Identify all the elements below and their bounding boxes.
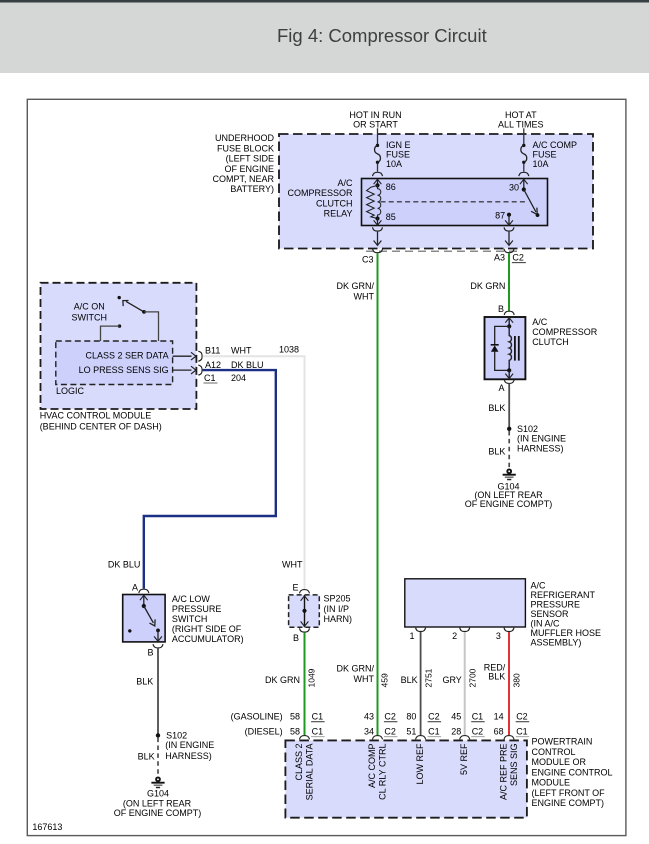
svg-text:OF ENGINE COMPT): OF ENGINE COMPT) <box>114 808 202 818</box>
connector face dashed line <box>366 250 522 252</box>
svg-text:58: 58 <box>290 712 300 722</box>
svg-text:80: 80 <box>406 712 416 722</box>
relay A/C compressor clutch relay <box>362 179 548 226</box>
connector C3 <box>362 249 383 264</box>
ground G104 right label <box>465 482 553 509</box>
svg-text:1038: 1038 <box>279 344 299 354</box>
svg-text:ALL TIMES: ALL TIMES <box>498 119 544 129</box>
HVAC control module <box>41 283 197 409</box>
svg-text:HARN): HARN) <box>324 614 353 624</box>
svg-text:10A: 10A <box>533 159 549 169</box>
svg-text:2751: 2751 <box>423 668 433 687</box>
wire fuse A/C COMP to relay pin 30 <box>523 164 525 172</box>
connector PCM low ref <box>416 736 426 740</box>
PCM input A/C COMP CL RLY CTRL <box>367 744 388 800</box>
svg-text:(LEFT FRONT OF: (LEFT FRONT OF <box>532 788 606 798</box>
svg-text:PRESSURE: PRESSURE <box>531 600 581 610</box>
splice pack SP205 label <box>324 594 353 624</box>
svg-text:204: 204 <box>231 373 246 383</box>
underhood fuse block <box>279 134 593 249</box>
fuse IGN E label <box>386 140 411 169</box>
svg-text:A/C LOW: A/C LOW <box>172 594 211 604</box>
svg-text:C1: C1 <box>472 712 484 722</box>
wire DK GRN from A3 to clutch pin B <box>508 253 510 311</box>
splice S102 left <box>156 730 215 761</box>
svg-text:A/C: A/C <box>531 581 547 591</box>
connector clutch pin A <box>498 380 514 393</box>
svg-text:BLK: BLK <box>138 751 155 761</box>
connector SP205 pin B <box>293 628 310 643</box>
svg-text:167613: 167613 <box>32 822 62 832</box>
underhood fuse block label <box>212 133 274 194</box>
svg-text:SENSOR: SENSOR <box>531 609 570 619</box>
svg-text:WHT: WHT <box>282 560 303 570</box>
svg-text:C2: C2 <box>384 712 396 722</box>
svg-text:A12: A12 <box>205 360 221 370</box>
svg-text:C1: C1 <box>428 727 440 737</box>
fuse IGN E 10A <box>375 144 381 164</box>
svg-text:CLUTCH: CLUTCH <box>316 198 353 208</box>
svg-text:(ON LEFT REAR: (ON LEFT REAR <box>123 799 192 809</box>
svg-text:45: 45 <box>451 712 461 722</box>
svg-text:30: 30 <box>509 182 519 192</box>
connector switch pin A <box>132 583 149 594</box>
svg-text:C2: C2 <box>512 252 524 262</box>
svg-text:G104: G104 <box>147 789 169 799</box>
svg-text:IGN E: IGN E <box>386 140 411 150</box>
svg-text:SP205: SP205 <box>324 594 351 604</box>
svg-text:51: 51 <box>406 727 416 737</box>
svg-text:DK GRN: DK GRN <box>470 281 505 291</box>
svg-text:A3: A3 <box>494 252 505 262</box>
wire BLK clutch to splice S102 <box>508 384 510 428</box>
connector sensor pin 3 <box>496 628 514 641</box>
svg-text:S102: S102 <box>517 424 538 434</box>
svg-text:ACCUMULATOR): ACCUMULATOR) <box>172 634 244 644</box>
svg-text:E: E <box>292 582 298 592</box>
relay coil winding <box>378 185 381 218</box>
svg-text:BLK: BLK <box>136 677 153 687</box>
svg-text:B11: B11 <box>205 346 220 356</box>
svg-text:UNDERHOOD: UNDERHOOD <box>215 133 275 143</box>
svg-text:C2: C2 <box>384 727 396 737</box>
connector sensor pin 1 <box>409 628 425 641</box>
svg-text:ASSEMBLY): ASSEMBLY) <box>531 638 582 648</box>
svg-text:RELAY: RELAY <box>324 209 353 219</box>
svg-text:ENGINE CONTROL: ENGINE CONTROL <box>532 767 613 777</box>
PCM input A/C REF PRE SENS SIG <box>499 744 519 801</box>
relay switch blade <box>524 190 540 218</box>
svg-text:A: A <box>132 583 138 593</box>
svg-text:1049: 1049 <box>306 668 316 687</box>
A/C ON switch label <box>72 301 108 322</box>
wire from HOT AT ALL TIMES to fuse A/C COMP <box>523 128 525 145</box>
connector at relay pin 86 <box>373 172 383 176</box>
relay switch pin 87 <box>505 213 513 226</box>
relay actuation dashed line <box>381 201 526 203</box>
clutch feed conductor <box>505 317 513 329</box>
svg-text:SENS SIG: SENS SIG <box>509 744 519 787</box>
svg-text:2700: 2700 <box>468 668 478 687</box>
svg-text:SERIAL DATA: SERIAL DATA <box>305 744 315 801</box>
A/C compressor clutch <box>485 317 526 379</box>
svg-text:3: 3 <box>496 631 501 641</box>
splice pack SP205 <box>289 595 320 627</box>
svg-text:28: 28 <box>451 727 461 737</box>
svg-text:CLUTCH: CLUTCH <box>532 337 569 347</box>
svg-text:DK BLU: DK BLU <box>108 560 141 570</box>
svg-text:FUSE BLOCK: FUSE BLOCK <box>217 143 274 153</box>
svg-text:85: 85 <box>386 212 396 222</box>
svg-text:B: B <box>498 304 504 314</box>
svg-text:CONTROL: CONTROL <box>532 747 576 757</box>
svg-text:(GASOLINE): (GASOLINE) <box>231 712 283 722</box>
power feed HOT IN RUN OR START <box>349 110 401 129</box>
ground G104 right <box>503 469 516 479</box>
clutch coil <box>509 326 519 370</box>
svg-text:REFRIGERANT: REFRIGERANT <box>531 590 596 600</box>
svg-text:DK GRN/: DK GRN/ <box>336 664 374 674</box>
svg-text:C2: C2 <box>516 712 528 722</box>
svg-text:1: 1 <box>409 631 414 641</box>
ground G104 left <box>151 777 164 787</box>
svg-text:WHT: WHT <box>231 346 252 356</box>
svg-text:10A: 10A <box>386 159 402 169</box>
svg-text:68: 68 <box>494 727 504 737</box>
relay coil resistor <box>367 185 378 218</box>
svg-text:LO PRESS SENS SIG: LO PRESS SENS SIG <box>79 365 169 375</box>
connector sensor pin 2 <box>452 628 470 641</box>
svg-text:CLASS 2: CLASS 2 <box>294 744 304 781</box>
wire BLK S102 to G104 dashed right <box>508 431 510 469</box>
HVAC control module label <box>40 411 162 432</box>
svg-text:BLK: BLK <box>488 403 505 413</box>
clutch return conductor <box>505 368 513 379</box>
svg-text:380: 380 <box>512 673 522 687</box>
wire DK GRN/WHT 459 from C3 to PCM <box>377 253 379 735</box>
svg-text:BLK: BLK <box>488 446 505 456</box>
svg-text:MODULE OR: MODULE OR <box>532 757 587 767</box>
relay pin 86 entry <box>374 179 382 188</box>
PCM pins 45 C1 / 28 C2 5v ref <box>451 712 484 737</box>
svg-text:BLK: BLK <box>401 675 418 685</box>
fuse A/C COMP 10A <box>521 144 527 164</box>
signal CLASS 2 SER DATA <box>85 350 195 360</box>
svg-text:C3: C3 <box>362 254 374 264</box>
fuse A/C COMP label <box>533 140 578 169</box>
svg-text:COMPRESSOR: COMPRESSOR <box>287 188 353 198</box>
svg-text:HARNESS): HARNESS) <box>165 751 212 761</box>
SP205 internal bus <box>301 595 309 627</box>
label DK GRN/WHT upper <box>336 281 374 302</box>
svg-text:COMPRESSOR: COMPRESSOR <box>532 327 598 337</box>
connector A3 C2 <box>494 249 526 263</box>
svg-text:A/C: A/C <box>532 317 548 327</box>
svg-text:S102: S102 <box>166 730 187 740</box>
svg-text:87: 87 <box>495 211 505 221</box>
connector at relay pin 30 <box>519 172 529 176</box>
wire BLK switch to splice S102 <box>157 648 159 733</box>
svg-text:58: 58 <box>290 727 300 737</box>
svg-text:WHT: WHT <box>354 674 375 684</box>
svg-text:C1: C1 <box>312 712 324 722</box>
svg-text:(DIESEL): (DIESEL) <box>245 727 283 737</box>
clutch diode <box>491 326 510 370</box>
svg-text:DK GRN/: DK GRN/ <box>336 281 374 291</box>
svg-text:GRY: GRY <box>442 675 461 685</box>
wire GRY 2700 sensor to PCM <box>464 632 466 735</box>
svg-text:LOGIC: LOGIC <box>56 386 85 396</box>
svg-text:MUFFLER HOSE: MUFFLER HOSE <box>531 628 602 638</box>
connector SP205 pin E <box>292 582 309 593</box>
label RED/BLK <box>484 662 506 681</box>
PCM pins 58 C1 class 2 serial data <box>290 712 325 737</box>
svg-text:OR START: OR START <box>353 119 398 129</box>
svg-text:SWITCH: SWITCH <box>72 312 108 322</box>
svg-text:OF ENGINE COMPT): OF ENGINE COMPT) <box>465 499 553 509</box>
relay label <box>287 178 353 219</box>
svg-text:(IN ENGINE: (IN ENGINE <box>165 740 214 750</box>
PCM pins 14 C2 / 68 C1 sens sig <box>494 712 530 737</box>
A/C ON switch <box>101 296 159 341</box>
PCM row labels GASOLINE DIESEL <box>231 712 283 737</box>
power feed HOT AT ALL TIMES <box>498 110 544 129</box>
svg-text:2: 2 <box>452 631 457 641</box>
A/C low pressure switch <box>123 595 165 642</box>
svg-text:C1: C1 <box>204 373 216 383</box>
svg-text:HVAC CONTROL MODULE: HVAC CONTROL MODULE <box>40 411 152 421</box>
svg-text:BATTERY): BATTERY) <box>230 184 274 194</box>
svg-text:459: 459 <box>380 673 390 687</box>
svg-text:86: 86 <box>386 182 396 192</box>
svg-text:FUSE: FUSE <box>386 150 410 160</box>
connector A12 C1 <box>198 360 263 383</box>
connector switch pin B <box>147 644 163 657</box>
svg-text:OF ENGINE: OF ENGINE <box>224 164 274 174</box>
connector below relay pin 87 <box>504 227 514 231</box>
wire RED/BLK 380 sensor to PCM <box>508 632 510 735</box>
svg-text:LOW REF: LOW REF <box>415 743 425 785</box>
svg-text:43: 43 <box>364 712 374 722</box>
PCM pins 43 C2 / 34 C2 relay control <box>364 712 397 737</box>
logic box <box>56 341 173 385</box>
svg-text:COMPT, NEAR: COMPT, NEAR <box>212 174 274 184</box>
wire fuse IGN E to relay pin 86 <box>377 164 379 172</box>
svg-text:(IN A/C: (IN A/C <box>531 619 561 629</box>
PCM pins 80 C2 / 51 C1 low ref <box>406 712 441 737</box>
svg-text:B: B <box>293 633 299 643</box>
svg-text:WHT: WHT <box>354 291 375 301</box>
relay switch pin 30 <box>520 179 528 192</box>
svg-text:14: 14 <box>494 712 504 722</box>
A/C refrigerant pressure sensor <box>405 579 526 627</box>
svg-text:(IN ENGINE: (IN ENGINE <box>517 434 566 444</box>
wire DK GRN 1049 SP205 to PCM <box>304 633 306 736</box>
svg-text:A/C REF PRE: A/C REF PRE <box>499 744 509 801</box>
svg-text:(BEHIND CENTER OF DASH): (BEHIND CENTER OF DASH) <box>40 422 162 432</box>
svg-text:A/C: A/C <box>337 178 353 188</box>
svg-text:A/C COMP: A/C COMP <box>367 744 377 789</box>
wire relay pin 85 to connector C3 <box>374 232 382 246</box>
connector PCM relay control <box>373 736 383 740</box>
A/C refrigerant pressure sensor label <box>531 581 602 648</box>
wire BLK 2751 sensor to PCM <box>420 632 422 735</box>
wire DK BLU 204 HVAC to pressure switch <box>144 370 276 588</box>
svg-text:MODULE: MODULE <box>532 778 571 788</box>
connector PCM sens sig <box>504 736 514 740</box>
svg-text:C1: C1 <box>516 727 528 737</box>
svg-text:(RIGHT SIDE OF: (RIGHT SIDE OF <box>172 624 242 634</box>
splice S102 right <box>507 424 566 454</box>
svg-text:5V REF: 5V REF <box>459 743 469 775</box>
ground G104 left label <box>114 789 202 819</box>
wire from HOT IN RUN to fuse IGN E <box>377 128 379 145</box>
svg-text:DK GRN: DK GRN <box>265 675 300 685</box>
wire relay pin 87 to connector A3 <box>505 232 513 246</box>
switch internal contacts <box>128 595 162 642</box>
svg-text:SWITCH: SWITCH <box>172 614 208 624</box>
A/C compressor clutch label <box>532 317 598 347</box>
svg-text:DK BLU: DK BLU <box>231 360 264 370</box>
svg-text:POWERTRAIN: POWERTRAIN <box>532 737 593 747</box>
svg-text:A: A <box>498 383 504 393</box>
svg-text:CLASS 2 SER DATA: CLASS 2 SER DATA <box>85 350 168 360</box>
relay pin 85 exit <box>374 216 382 225</box>
connector B11 <box>198 344 299 361</box>
powertrain control module <box>285 740 527 817</box>
svg-text:B: B <box>147 648 153 658</box>
wire WHT 1038 HVAC to SP205 <box>203 356 305 589</box>
svg-text:BLK: BLK <box>488 671 505 681</box>
powertrain control module label <box>532 737 613 809</box>
svg-text:C2: C2 <box>428 712 440 722</box>
connector below relay pin 85 <box>373 227 383 231</box>
svg-text:FUSE: FUSE <box>533 150 557 160</box>
svg-text:34: 34 <box>364 727 374 737</box>
label DK GRN/WHT lower <box>336 664 374 685</box>
svg-text:PRESSURE: PRESSURE <box>172 604 222 614</box>
svg-text:HARNESS): HARNESS) <box>517 444 564 454</box>
svg-text:(IN I/P: (IN I/P <box>324 604 350 614</box>
connector clutch pin B <box>498 304 514 315</box>
connector PCM class 2 serial data <box>300 736 310 740</box>
A/C low pressure switch label <box>172 594 244 644</box>
svg-text:C1: C1 <box>312 727 324 737</box>
signal LO PRESS SENS SIG <box>79 365 196 375</box>
svg-text:(LEFT SIDE: (LEFT SIDE <box>226 154 274 164</box>
svg-text:C2: C2 <box>472 727 484 737</box>
svg-text:CL RLY CTRL: CL RLY CTRL <box>378 744 388 800</box>
PCM input CLASS 2 SERIAL DATA <box>294 744 315 801</box>
svg-text:Fig 4: Compressor Circuit: Fig 4: Compressor Circuit <box>277 25 487 46</box>
svg-text:A/C COMP: A/C COMP <box>533 140 578 150</box>
wire BLK S102 to G104 dashed left <box>157 738 159 777</box>
connector PCM 5v ref <box>460 736 470 740</box>
svg-text:A/C ON: A/C ON <box>74 301 105 311</box>
svg-text:ENGINE COMPT): ENGINE COMPT) <box>532 798 605 808</box>
